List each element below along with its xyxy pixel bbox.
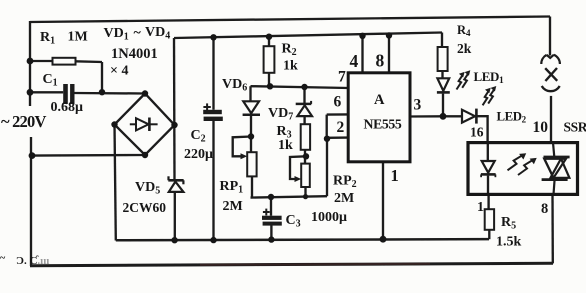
svg-text:16: 16	[470, 125, 484, 140]
svg-text:2k: 2k	[457, 41, 472, 56]
svg-text:6: 6	[334, 94, 342, 111]
svg-text:~: ~	[0, 253, 6, 264]
svg-text:NE555: NE555	[364, 117, 402, 132]
svg-text:0.68μ: 0.68μ	[51, 100, 84, 115]
svg-text:7: 7	[338, 69, 346, 86]
svg-text:A: A	[374, 92, 385, 108]
svg-text:10: 10	[533, 119, 549, 136]
svg-text:1M: 1M	[68, 30, 88, 45]
svg-text:1: 1	[477, 200, 484, 215]
svg-text:1k: 1k	[283, 59, 298, 74]
svg-text:8: 8	[376, 51, 385, 71]
svg-text:2M: 2M	[223, 199, 243, 214]
svg-text:SSR: SSR	[564, 120, 586, 135]
svg-text:1k: 1k	[278, 138, 293, 153]
svg-text:8: 8	[541, 201, 548, 217]
svg-text:2CW60: 2CW60	[123, 200, 167, 215]
svg-text:Ɔ. Ƈ.ııı: Ɔ. Ƈ.ııı	[16, 255, 49, 267]
svg-text:1000μ: 1000μ	[311, 210, 347, 225]
svg-text:2: 2	[337, 119, 345, 136]
svg-text:1.5k: 1.5k	[496, 235, 522, 250]
svg-text:220μ: 220μ	[184, 147, 213, 162]
svg-text:× 4: × 4	[110, 64, 128, 79]
svg-text:2M: 2M	[334, 191, 354, 206]
svg-text:~ 220V: ~ 220V	[1, 112, 46, 131]
svg-text:1N4001: 1N4001	[111, 46, 158, 62]
svg-text:3: 3	[414, 97, 422, 114]
svg-text:4: 4	[350, 51, 359, 71]
svg-text:1: 1	[391, 166, 399, 185]
svg-text:~: ~	[134, 26, 142, 41]
